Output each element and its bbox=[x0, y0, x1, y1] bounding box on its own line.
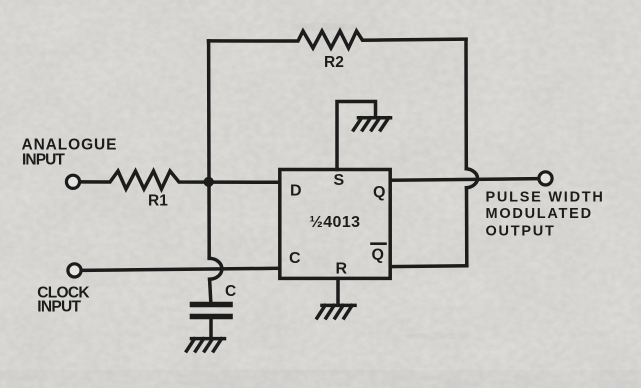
faint bleed-through smudge bottom centre bbox=[406, 333, 470, 340]
capacitor C plates bbox=[193, 305, 231, 317]
ground: upper ground at S bbox=[354, 118, 391, 130]
wire: S pin up and over to ground bbox=[337, 102, 376, 170]
wire: Q output to terminal bbox=[391, 179, 539, 181]
svg-text:R: R bbox=[336, 260, 348, 277]
svg-text:PULSE WIDTH: PULSE WIDTH bbox=[486, 190, 605, 206]
IC U1: 1/2 4013 box bbox=[280, 170, 390, 279]
wire: analogue input to D pin with resistor R1 bbox=[80, 171, 280, 189]
svg-text:Q: Q bbox=[373, 184, 385, 201]
junction dot: R1 / R2 / D node bbox=[204, 177, 213, 186]
wire: clock input to C pin bbox=[82, 268, 280, 270]
faint bleed-through smudge top centre bbox=[282, 23, 358, 31]
terminal: PWM output bbox=[539, 172, 552, 185]
svg-text:½4013: ½4013 bbox=[310, 214, 361, 231]
svg-text:S: S bbox=[334, 172, 345, 189]
terminal: analogue input bbox=[66, 175, 79, 188]
svg-text:R1: R1 bbox=[148, 193, 168, 210]
svg-text:INPUT: INPUT bbox=[37, 299, 81, 316]
svg-text:R2: R2 bbox=[324, 54, 344, 71]
ground: lower ground at R bbox=[317, 305, 355, 318]
wire: capacitor to ground bbox=[209, 319, 213, 338]
svg-text:C: C bbox=[225, 283, 236, 300]
wire: top feedback wire with resistor R2 bbox=[209, 31, 467, 48]
wire hop: left vertical over clock line bbox=[209, 258, 222, 279]
wire: right vertical from hop down to Q-bar line bbox=[465, 188, 469, 266]
terminal: clock input bbox=[68, 264, 81, 277]
svg-text:Q: Q bbox=[372, 247, 384, 264]
wire hop: right vertical over Q output line bbox=[466, 169, 477, 188]
overline of Q-bar pin label bbox=[372, 242, 386, 245]
svg-text:D: D bbox=[290, 182, 302, 199]
svg-text:INPUT: INPUT bbox=[22, 151, 65, 168]
svg-text:MODULATED: MODULATED bbox=[486, 206, 593, 222]
svg-text:OUTPUT: OUTPUT bbox=[486, 223, 556, 239]
faint scan shading at bottom edge bbox=[0, 370, 641, 388]
wire: R pin down to ground bbox=[336, 279, 340, 306]
wire: left vertical from top wire to junction and down to hop bbox=[207, 41, 211, 258]
wire: Q-bar output to right vertical bbox=[391, 264, 467, 268]
svg-text:C: C bbox=[289, 250, 301, 267]
ground: capacitor ground bbox=[187, 339, 225, 351]
wire: right vertical feedback from top wire down to hop bbox=[464, 39, 468, 168]
wire: left vertical from hop down to capacitor bbox=[210, 279, 211, 302]
